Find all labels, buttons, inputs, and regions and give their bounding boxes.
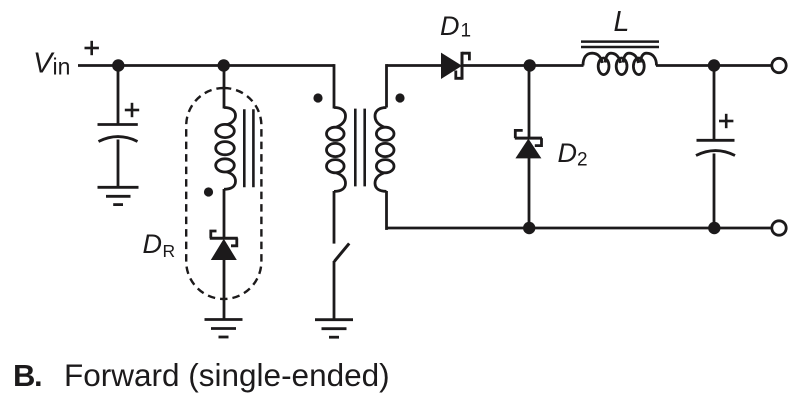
wire input cap branch <box>117 66 120 125</box>
switch S <box>334 243 349 261</box>
wire output cap top <box>713 66 716 141</box>
label DR <box>143 229 176 261</box>
junction node D2 bottom <box>523 222 535 234</box>
dashed enclosure reset winding <box>186 88 261 299</box>
wire bottom rail <box>387 227 772 230</box>
junction node input cap <box>112 59 124 71</box>
polarity dot secondary <box>395 93 404 102</box>
label D2 <box>558 138 588 171</box>
polarity dot primary <box>313 93 322 102</box>
wire D1 to inductor L <box>463 64 584 67</box>
transformer primary winding <box>327 108 346 192</box>
wire diode DR to ground <box>223 259 226 320</box>
polarity dot reset winding <box>204 187 213 196</box>
wire reset winding to diode DR <box>223 189 226 237</box>
output terminal top <box>772 58 786 72</box>
diode D1 <box>441 52 469 80</box>
wire switch to ground <box>333 261 336 320</box>
plus polarity output cap <box>719 114 733 128</box>
wire D2 bottom <box>528 158 531 228</box>
svg-text:B: B <box>13 358 35 393</box>
svg-text:Forward (single-ended): Forward (single-ended) <box>64 357 390 393</box>
svg-text:D: D <box>143 229 163 259</box>
wire D2 top <box>528 66 531 139</box>
wire secondary top rail <box>387 64 442 67</box>
label D1 <box>440 11 471 42</box>
ground input cap <box>98 187 139 204</box>
core inductor L <box>581 42 659 47</box>
junction output node top <box>708 59 720 71</box>
caption <box>13 357 390 393</box>
transformer core <box>355 109 364 187</box>
svg-text:L: L <box>614 6 630 38</box>
inductor reset winding <box>216 108 236 190</box>
capacitor Cin <box>98 125 138 142</box>
svg-text:2: 2 <box>577 150 588 171</box>
wire primary bottom to switch <box>333 191 336 244</box>
core reset winding <box>244 109 253 187</box>
wire L to output node <box>656 64 714 67</box>
svg-text:D: D <box>558 138 578 168</box>
output terminal bottom <box>772 221 786 235</box>
svg-text:in: in <box>53 54 71 80</box>
ground switch <box>315 320 353 338</box>
diode D2 <box>515 130 542 158</box>
svg-text:.: . <box>34 358 43 393</box>
wire output cap bottom <box>713 154 716 229</box>
svg-text:R: R <box>163 241 176 261</box>
junction node D1 D2 <box>524 59 536 71</box>
wire Cin to ground <box>117 140 120 188</box>
svg-text:1: 1 <box>461 21 472 42</box>
capacitor Cout <box>696 140 735 155</box>
label Vin <box>33 48 70 80</box>
wire output node to terminal <box>714 64 772 67</box>
ground DR <box>205 320 243 338</box>
wire top rail input <box>78 64 334 67</box>
wire secondary bottom <box>385 191 388 230</box>
wire primary top <box>333 64 336 108</box>
junction node reset winding <box>218 59 230 71</box>
inductor L <box>583 53 657 74</box>
diode DR <box>210 231 238 260</box>
wire reset winding top <box>223 66 226 109</box>
junction output node bottom <box>708 222 720 234</box>
svg-text:D: D <box>440 11 460 41</box>
plus polarity input <box>85 41 99 55</box>
transformer secondary winding <box>375 108 394 192</box>
plus polarity input cap <box>125 103 139 117</box>
